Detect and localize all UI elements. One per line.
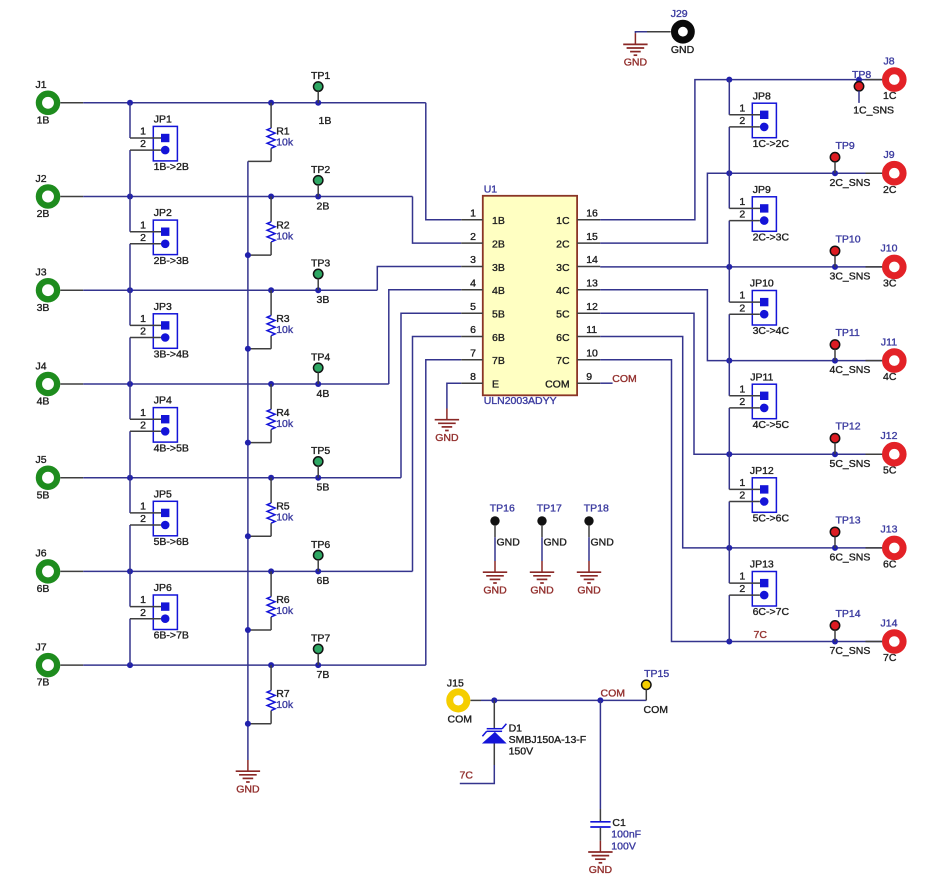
svg-text:3C: 3C bbox=[556, 262, 570, 274]
op-amp/driver IC U1 ULN2003ADYY bbox=[483, 183, 577, 407]
svg-text:6B: 6B bbox=[492, 332, 505, 344]
svg-text:GND: GND bbox=[544, 537, 568, 549]
svg-text:ULN2003ADYY: ULN2003ADYY bbox=[484, 395, 557, 407]
test point TP17 (GND) bbox=[537, 503, 562, 538]
test point TP6 bbox=[311, 539, 330, 572]
wire net 1C_SNS stub bbox=[858, 91, 860, 103]
wire U1 pin 8 (E) to GND bbox=[447, 383, 461, 408]
svg-text:2C: 2C bbox=[556, 238, 570, 250]
svg-text:TP16: TP16 bbox=[490, 503, 515, 515]
junction 5C / jumper column bbox=[726, 451, 732, 457]
J29 pin lead bbox=[647, 31, 671, 33]
wire JP11 pin2 riser to 5C bbox=[728, 408, 730, 454]
svg-text:JP11: JP11 bbox=[750, 371, 773, 383]
jumper JP12 bbox=[750, 465, 790, 525]
wire net COM horizontal bbox=[481, 699, 646, 701]
wire JP10 pin2 riser to 4C bbox=[728, 314, 730, 360]
jumper JP13 bbox=[750, 559, 790, 619]
svg-text:GND: GND bbox=[624, 57, 648, 69]
junction 6C / jumper column bbox=[726, 545, 732, 551]
wire JP1 pin1 riser bbox=[129, 103, 131, 138]
svg-text:3C_SNS: 3C_SNS bbox=[830, 271, 871, 283]
svg-text:J15: J15 bbox=[447, 678, 464, 690]
svg-text:6C->7C: 6C->7C bbox=[753, 606, 790, 618]
junction 4C / TP11 bbox=[832, 358, 838, 364]
junction 1C / jumper column bbox=[726, 77, 732, 83]
JP5 pin 2 bbox=[130, 513, 161, 525]
wire JP4 pin2 riser to 5B bbox=[129, 431, 131, 477]
svg-text:JP12: JP12 bbox=[750, 465, 774, 477]
svg-text:TP18: TP18 bbox=[584, 503, 609, 515]
junction 4B / jumper column bbox=[127, 381, 133, 387]
U1 pin 13 (4C) bbox=[556, 278, 600, 298]
svg-text:7B: 7B bbox=[37, 677, 50, 689]
JP13 pin 2 bbox=[729, 583, 760, 595]
test point TP8 bbox=[852, 69, 871, 91]
ground symbol resistor chain bbox=[236, 760, 260, 782]
svg-text:7C: 7C bbox=[754, 629, 768, 641]
U1 pin 16 (1C) bbox=[556, 208, 600, 228]
JP6 pin 1 bbox=[130, 594, 161, 606]
svg-text:4C: 4C bbox=[883, 371, 897, 383]
connector J2 (2B input) bbox=[35, 173, 57, 220]
wire JP5 pin1 riser bbox=[129, 478, 131, 513]
svg-text:1C: 1C bbox=[556, 215, 570, 227]
junction 6B / R6 bbox=[268, 568, 274, 574]
connector J10 (3C output) bbox=[881, 243, 904, 290]
JP4 pin 2 bbox=[130, 419, 161, 431]
wire JP5 pin2 riser to 6B bbox=[129, 525, 131, 571]
svg-text:GND: GND bbox=[671, 44, 695, 56]
junction 4B / TP4 bbox=[315, 381, 321, 387]
JP10 pin 1 bbox=[729, 290, 760, 302]
svg-text:6C: 6C bbox=[556, 332, 570, 344]
junction 3B / R3 bbox=[268, 287, 274, 293]
J9 pin lead bbox=[866, 172, 883, 174]
connector J8 (1C output) bbox=[883, 55, 903, 102]
U1 pin 12 (5C) bbox=[556, 301, 600, 321]
svg-text:5C->6C: 5C->6C bbox=[753, 513, 790, 525]
wire net 5C from U1 pin 12 bbox=[600, 313, 882, 454]
test point TP11 bbox=[830, 327, 860, 361]
svg-text:J5: J5 bbox=[35, 454, 46, 466]
svg-text:JP1: JP1 bbox=[154, 114, 172, 126]
svg-text:1: 1 bbox=[140, 313, 146, 325]
ground symbol TP16 bbox=[483, 561, 507, 583]
J7 pin lead bbox=[60, 664, 83, 666]
svg-text:COM: COM bbox=[612, 373, 637, 385]
svg-text:10k: 10k bbox=[276, 512, 294, 524]
wire COM to C1 bbox=[599, 700, 601, 809]
svg-text:2B->3B: 2B->3B bbox=[154, 255, 189, 267]
wire JP8 pin1 riser bbox=[728, 80, 730, 115]
junction R5 bottom / chain bbox=[245, 533, 251, 539]
J11 pin lead bbox=[866, 360, 883, 362]
svg-text:4: 4 bbox=[470, 278, 476, 290]
wire JP2 pin1 riser bbox=[129, 197, 131, 232]
junction R3 bottom / chain bbox=[245, 346, 251, 352]
junction 2C / TP9 bbox=[832, 170, 838, 176]
svg-text:7C_SNS: 7C_SNS bbox=[830, 645, 871, 657]
wire net 2B horizontal bbox=[83, 196, 412, 198]
svg-text:SMBJ150A-13-F: SMBJ150A-13-F bbox=[509, 734, 587, 746]
junction 2B / TP2 bbox=[315, 194, 321, 200]
wire JP13 pin2 riser to 7C bbox=[728, 595, 730, 641]
svg-text:7B: 7B bbox=[317, 669, 330, 681]
svg-text:2: 2 bbox=[739, 209, 745, 221]
svg-text:U1: U1 bbox=[484, 183, 498, 195]
svg-text:TP7: TP7 bbox=[311, 633, 330, 645]
ground symbol TP17 bbox=[530, 561, 554, 583]
wire net 4B riser up to U1 pin 4 bbox=[389, 290, 461, 384]
svg-text:J14: J14 bbox=[881, 617, 898, 629]
svg-text:TP4: TP4 bbox=[311, 351, 330, 363]
JP9 pin 2 bbox=[729, 209, 760, 221]
svg-text:J10: J10 bbox=[881, 243, 898, 255]
jumper JP9 bbox=[752, 184, 789, 244]
svg-text:1: 1 bbox=[739, 196, 745, 208]
wire JP3 pin2 riser to 4B bbox=[129, 338, 131, 385]
J1 pin lead bbox=[60, 102, 83, 104]
svg-text:5B: 5B bbox=[37, 489, 50, 501]
svg-text:16: 16 bbox=[586, 208, 598, 220]
junction 7B / R7 bbox=[268, 662, 274, 668]
junction 2C / jumper column bbox=[726, 170, 732, 176]
JP3 pin 1 bbox=[130, 313, 161, 325]
test point TP10 bbox=[830, 233, 860, 267]
U1 pin 15 (2C) bbox=[556, 231, 600, 251]
wire TP16 to GND bbox=[494, 537, 496, 561]
ground symbol C1 bbox=[588, 841, 612, 863]
wire net 2B riser down to U1 pin 2 bbox=[413, 197, 462, 244]
junction R2 bottom / chain bbox=[245, 252, 251, 258]
svg-text:COM: COM bbox=[545, 379, 570, 391]
J12 pin lead bbox=[866, 453, 883, 455]
svg-text:4B: 4B bbox=[317, 388, 330, 400]
wire JP13 pin1 riser bbox=[728, 548, 730, 583]
svg-text:J3: J3 bbox=[35, 267, 46, 279]
wire JP12 pin1 riser bbox=[728, 454, 730, 489]
svg-text:JP6: JP6 bbox=[154, 582, 172, 594]
junction 1B / jumper column bbox=[127, 100, 133, 106]
resistor R1 10k bbox=[248, 103, 294, 162]
J8 pin lead bbox=[866, 79, 883, 81]
wire JP2 pin2 riser to 3B bbox=[129, 244, 131, 290]
svg-text:COM: COM bbox=[601, 688, 626, 700]
svg-text:4B: 4B bbox=[492, 285, 505, 297]
junction 7C / jumper column bbox=[726, 639, 732, 645]
test point TP5 bbox=[311, 445, 330, 478]
svg-text:2: 2 bbox=[140, 513, 146, 525]
wire JP10 pin1 riser bbox=[728, 267, 730, 302]
svg-text:5: 5 bbox=[470, 301, 476, 313]
JP12 pin 1 bbox=[729, 477, 760, 489]
svg-text:6C: 6C bbox=[883, 558, 897, 570]
connector J1 (1B input) bbox=[35, 79, 57, 126]
svg-text:GND: GND bbox=[497, 537, 521, 549]
svg-text:TP14: TP14 bbox=[836, 608, 861, 620]
connector J14 (7C output) bbox=[881, 617, 904, 664]
test point TP16 (GND) bbox=[490, 503, 515, 538]
svg-text:7C: 7C bbox=[883, 652, 897, 664]
resistor R6 10k bbox=[248, 571, 294, 630]
wire net 6C from U1 pin 11 bbox=[600, 337, 882, 548]
svg-text:3B->4B: 3B->4B bbox=[154, 349, 189, 361]
resistor R3 10k bbox=[248, 290, 294, 349]
svg-text:3C: 3C bbox=[883, 277, 897, 289]
resistor R2 10k bbox=[248, 197, 294, 256]
svg-text:10: 10 bbox=[586, 348, 598, 360]
jumper JP11 bbox=[750, 371, 789, 431]
test point TP1 bbox=[311, 70, 330, 103]
svg-text:TP17: TP17 bbox=[537, 503, 562, 515]
svg-text:J29: J29 bbox=[671, 8, 688, 20]
resistor R7 10k bbox=[248, 665, 294, 724]
test point TP14 bbox=[830, 608, 860, 642]
svg-text:1C: 1C bbox=[883, 90, 897, 102]
junction 4B / R4 bbox=[268, 381, 274, 387]
wire JP9 pin2 riser to 3C bbox=[728, 221, 730, 267]
jumper JP3 bbox=[153, 301, 189, 361]
wire JP6 pin2 riser to 7B bbox=[129, 619, 131, 665]
U1 pin 3 (3B) bbox=[461, 254, 505, 274]
svg-text:1C_SNS: 1C_SNS bbox=[853, 105, 894, 117]
junction 3B / TP3 bbox=[315, 287, 321, 293]
svg-text:COM: COM bbox=[448, 714, 473, 726]
JP10 pin 2 bbox=[729, 302, 760, 314]
svg-text:10k: 10k bbox=[276, 605, 294, 617]
junction 6B / jumper column bbox=[127, 568, 133, 574]
wire net 1B horizontal bbox=[83, 102, 426, 104]
connector J3 (3B input) bbox=[35, 267, 57, 314]
svg-text:1: 1 bbox=[140, 126, 146, 138]
svg-text:C1: C1 bbox=[612, 817, 626, 829]
connector J9 (2C output) bbox=[883, 149, 903, 196]
wire net 6B horizontal bbox=[83, 570, 412, 572]
svg-text:1B: 1B bbox=[492, 215, 505, 227]
svg-text:4C_SNS: 4C_SNS bbox=[830, 364, 871, 376]
jumper JP5 bbox=[153, 488, 189, 548]
U1 pin 8 (E) bbox=[461, 371, 499, 391]
test point TP2 bbox=[311, 164, 330, 197]
svg-text:4C: 4C bbox=[556, 285, 570, 297]
U1 pin 11 (6C) bbox=[556, 324, 600, 344]
test point TP9 bbox=[830, 140, 855, 173]
connector J6 (6B input) bbox=[35, 548, 57, 595]
connector J12 (5C output) bbox=[881, 430, 904, 477]
test point TP15 (COM) bbox=[642, 668, 670, 700]
svg-text:3B: 3B bbox=[317, 294, 330, 306]
svg-text:6C_SNS: 6C_SNS bbox=[830, 552, 871, 564]
wire JP9 pin1 riser bbox=[728, 173, 730, 208]
connector J4 (4B input) bbox=[35, 360, 57, 407]
U1 pin 10 (7C) bbox=[556, 348, 600, 368]
jumper JP1 bbox=[153, 114, 189, 174]
wire TP18 to GND bbox=[588, 537, 590, 561]
junction 3C / TP10 bbox=[832, 264, 838, 270]
wire JP3 pin1 riser bbox=[129, 290, 131, 325]
svg-text:2C: 2C bbox=[883, 184, 897, 196]
test point TP7 bbox=[311, 633, 330, 666]
svg-text:J9: J9 bbox=[883, 149, 894, 161]
svg-text:5C_SNS: 5C_SNS bbox=[830, 458, 871, 470]
svg-text:3B: 3B bbox=[492, 262, 505, 274]
U1 pin 6 (6B) bbox=[461, 324, 505, 344]
wire net 7B riser up to U1 pin 7 bbox=[426, 360, 461, 665]
J10 pin lead bbox=[866, 266, 883, 268]
U1 pin 9 (COM) bbox=[545, 371, 600, 391]
wire JP6 pin1 riser bbox=[129, 571, 131, 606]
junction 5B / jumper column bbox=[127, 475, 133, 481]
svg-text:14: 14 bbox=[586, 254, 598, 266]
junction 2B / jumper column bbox=[127, 194, 133, 200]
resistor R4 10k bbox=[248, 384, 294, 443]
junction R7 bottom / chain bbox=[245, 721, 251, 727]
svg-text:8: 8 bbox=[470, 371, 476, 383]
junction 7C / TP14 bbox=[832, 639, 838, 645]
wire net 6B riser up to U1 pin 6 bbox=[413, 337, 462, 572]
jumper JP8 bbox=[752, 90, 789, 150]
svg-text:GND: GND bbox=[236, 783, 260, 795]
JP11 pin 2 bbox=[729, 396, 760, 408]
svg-text:GND: GND bbox=[530, 584, 554, 596]
svg-text:JP2: JP2 bbox=[154, 207, 172, 219]
svg-text:3C->4C: 3C->4C bbox=[753, 325, 790, 337]
test point TP3 bbox=[311, 258, 330, 291]
junction 6B / TP6 bbox=[315, 568, 321, 574]
svg-text:GND: GND bbox=[591, 537, 615, 549]
wire JP1 pin2 riser to 2B bbox=[129, 150, 131, 196]
U1 pin 7 (7B) bbox=[461, 348, 505, 368]
svg-text:J6: J6 bbox=[35, 548, 46, 560]
svg-text:5B: 5B bbox=[317, 482, 330, 494]
svg-text:2: 2 bbox=[739, 115, 745, 127]
svg-text:JP4: JP4 bbox=[154, 395, 172, 407]
wire TP17 to GND bbox=[541, 537, 543, 561]
wire net 7C from U1 pin 10 bbox=[600, 360, 882, 642]
J4 pin lead bbox=[60, 383, 83, 385]
svg-text:2: 2 bbox=[739, 302, 745, 314]
JP8 pin 1 bbox=[729, 102, 760, 114]
connector J13 (6C output) bbox=[881, 524, 904, 571]
ground symbol TP18 bbox=[577, 561, 601, 583]
svg-text:5B->6B: 5B->6B bbox=[154, 536, 189, 548]
J3 pin lead bbox=[60, 289, 83, 291]
svg-text:1B: 1B bbox=[37, 114, 50, 126]
jumper JP10 bbox=[750, 278, 790, 338]
JP13 pin 1 bbox=[729, 571, 760, 584]
wire net COM stub at U1 pin 9 bbox=[600, 382, 612, 384]
svg-text:COM: COM bbox=[644, 704, 669, 716]
svg-text:1: 1 bbox=[470, 208, 476, 220]
J13 pin lead bbox=[866, 547, 883, 549]
svg-text:10k: 10k bbox=[276, 324, 294, 336]
JP1 pin 1 bbox=[130, 126, 161, 138]
svg-text:TP2: TP2 bbox=[311, 164, 330, 176]
svg-text:D1: D1 bbox=[509, 723, 523, 735]
svg-text:1: 1 bbox=[140, 407, 146, 419]
junction 4C / jumper column bbox=[726, 358, 732, 364]
test point TP4 bbox=[311, 351, 330, 384]
U1 pin 4 (4B) bbox=[461, 278, 505, 298]
svg-text:1: 1 bbox=[739, 477, 745, 489]
connector J11 (4C output) bbox=[881, 336, 903, 383]
svg-text:10k: 10k bbox=[276, 418, 294, 430]
junction 3B / jumper column bbox=[127, 287, 133, 293]
JP2 pin 1 bbox=[130, 219, 161, 231]
svg-text:2: 2 bbox=[470, 231, 476, 243]
svg-text:2C_SNS: 2C_SNS bbox=[830, 177, 871, 189]
svg-text:4C->5C: 4C->5C bbox=[753, 419, 790, 431]
capacitor C1 100nF 100V bbox=[590, 809, 641, 852]
junction 5C / TP12 bbox=[832, 451, 838, 457]
wire net 3B horizontal bbox=[83, 289, 377, 291]
connector J5 (5B input) bbox=[35, 454, 57, 501]
JP6 pin 2 bbox=[130, 607, 161, 619]
svg-text:100nF: 100nF bbox=[611, 829, 641, 841]
junction 1B / R1 bbox=[268, 100, 274, 106]
svg-text:1: 1 bbox=[140, 219, 146, 231]
svg-text:9: 9 bbox=[586, 371, 592, 383]
wire net 1B riser down to U1 pin 1 bbox=[426, 103, 461, 220]
svg-text:JP10: JP10 bbox=[750, 278, 774, 290]
ground symbol J29 bbox=[623, 33, 647, 55]
svg-text:6B: 6B bbox=[37, 583, 50, 595]
JP9 pin 1 bbox=[729, 196, 760, 208]
svg-text:TP12: TP12 bbox=[836, 421, 861, 433]
junction 7B / TP7 bbox=[315, 662, 321, 668]
wire J29 to GND bbox=[635, 32, 647, 34]
svg-text:5C: 5C bbox=[883, 465, 897, 477]
svg-text:4B: 4B bbox=[37, 396, 50, 408]
wire resistor-chain to GND bbox=[247, 161, 249, 760]
connector J15 (COM) bbox=[447, 678, 472, 726]
junction 7B / jumper column bbox=[127, 662, 133, 668]
svg-text:GND: GND bbox=[577, 584, 601, 596]
svg-text:2B: 2B bbox=[37, 208, 50, 220]
svg-text:TP6: TP6 bbox=[311, 539, 330, 551]
svg-text:6: 6 bbox=[470, 324, 476, 336]
svg-text:1C->2C: 1C->2C bbox=[753, 138, 790, 150]
svg-text:JP9: JP9 bbox=[753, 184, 771, 196]
svg-text:TP13: TP13 bbox=[836, 514, 861, 526]
svg-text:JP5: JP5 bbox=[154, 488, 172, 500]
svg-text:2: 2 bbox=[739, 490, 745, 502]
svg-text:3: 3 bbox=[470, 254, 476, 266]
test point TP18 (GND) bbox=[584, 503, 609, 538]
junction 5B / R5 bbox=[268, 475, 274, 481]
junction 1C / TP8 bbox=[856, 77, 862, 83]
svg-text:2C->3C: 2C->3C bbox=[753, 232, 790, 244]
U1 pin 14 (3C) bbox=[556, 254, 600, 274]
connector J7 (7B input) bbox=[35, 641, 57, 688]
svg-text:E: E bbox=[492, 379, 499, 391]
svg-text:2: 2 bbox=[140, 138, 146, 150]
wire D1 anode to 7C stub bbox=[460, 765, 495, 784]
svg-text:7C: 7C bbox=[460, 769, 474, 781]
svg-text:J13: J13 bbox=[881, 524, 898, 536]
svg-text:J4: J4 bbox=[35, 360, 46, 372]
ground symbol U1 enable bbox=[435, 409, 459, 431]
junction COM / C1 bbox=[597, 697, 603, 703]
svg-text:1: 1 bbox=[140, 594, 146, 606]
svg-text:7: 7 bbox=[470, 348, 476, 360]
svg-text:5C: 5C bbox=[556, 309, 570, 321]
svg-text:1: 1 bbox=[739, 383, 745, 395]
JP2 pin 2 bbox=[130, 232, 161, 244]
svg-text:6B->7B: 6B->7B bbox=[154, 630, 189, 642]
svg-text:1: 1 bbox=[739, 290, 745, 302]
